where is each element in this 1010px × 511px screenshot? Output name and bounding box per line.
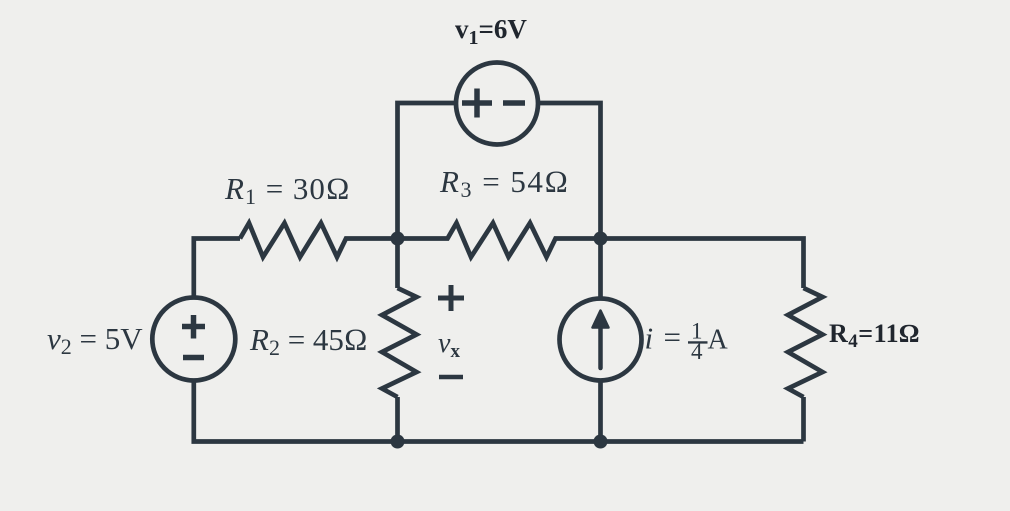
svg-text:R4=11Ω: R4=11Ω — [829, 319, 920, 352]
svg-text:R2 = 45Ω: R2 = 45Ω — [249, 322, 368, 360]
svg-text:4: 4 — [691, 339, 703, 364]
svg-text:=: = — [664, 320, 681, 355]
svg-text:R3 = 54Ω: R3 = 54Ω — [439, 164, 570, 202]
svg-text:i: i — [645, 321, 654, 356]
svg-text:R1 = 30Ω: R1 = 30Ω — [224, 171, 351, 209]
svg-text:v1=6V: v1=6V — [455, 14, 527, 49]
svg-text:A: A — [708, 325, 729, 356]
